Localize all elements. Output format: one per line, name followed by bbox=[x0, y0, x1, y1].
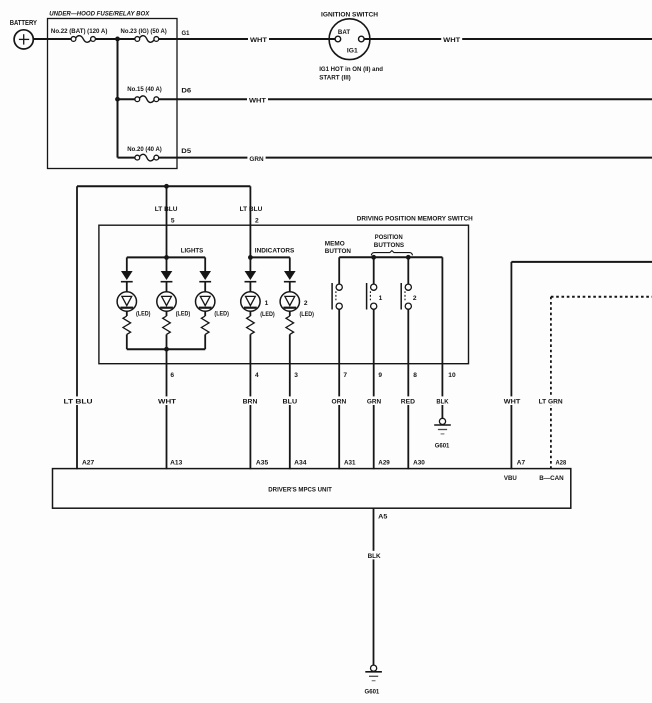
svg-text:LT BLU: LT BLU bbox=[240, 206, 263, 213]
svg-text:BRN: BRN bbox=[243, 399, 258, 406]
svg-text:3: 3 bbox=[294, 372, 298, 379]
svg-text:RED: RED bbox=[401, 399, 415, 406]
svg-text:9: 9 bbox=[378, 372, 382, 379]
svg-text:6: 6 bbox=[170, 372, 174, 379]
svg-text:5: 5 bbox=[171, 218, 175, 225]
svg-text:DRIVER'S MPCS UNIT: DRIVER'S MPCS UNIT bbox=[268, 486, 332, 493]
svg-text:7: 7 bbox=[343, 372, 347, 379]
svg-text:D6: D6 bbox=[181, 87, 191, 94]
svg-text:WHT: WHT bbox=[158, 399, 176, 406]
svg-text:No.22 (BAT) (120 A): No.22 (BAT) (120 A) bbox=[51, 28, 108, 35]
svg-text:A27: A27 bbox=[82, 459, 95, 466]
svg-text:A29: A29 bbox=[378, 459, 390, 466]
svg-text:IG1 HOT in ON (II) and: IG1 HOT in ON (II) and bbox=[319, 66, 383, 73]
svg-text:8: 8 bbox=[413, 372, 417, 379]
svg-text:A35: A35 bbox=[256, 459, 269, 466]
svg-text:(LED): (LED) bbox=[300, 312, 315, 318]
svg-text:BUTTON: BUTTON bbox=[325, 248, 351, 255]
svg-text:4: 4 bbox=[255, 372, 259, 379]
svg-text:A7: A7 bbox=[517, 459, 526, 466]
svg-text:G1: G1 bbox=[182, 30, 190, 37]
svg-text:A28: A28 bbox=[556, 459, 567, 466]
svg-text:A31: A31 bbox=[344, 459, 356, 466]
svg-text:WHT: WHT bbox=[249, 97, 266, 104]
svg-text:BAT: BAT bbox=[338, 29, 350, 36]
svg-text:G601: G601 bbox=[435, 442, 450, 449]
svg-text:No.15 (40 A): No.15 (40 A) bbox=[127, 86, 162, 93]
svg-text:BLK: BLK bbox=[436, 399, 448, 406]
svg-text:(LED): (LED) bbox=[136, 312, 151, 318]
svg-text:1: 1 bbox=[265, 300, 269, 307]
svg-text:GRN: GRN bbox=[367, 399, 382, 406]
svg-text:(LED): (LED) bbox=[260, 312, 275, 318]
svg-text:BATTERY: BATTERY bbox=[10, 18, 37, 27]
svg-text:10: 10 bbox=[448, 372, 456, 379]
svg-text:G601: G601 bbox=[365, 688, 380, 695]
svg-text:LIGHTS: LIGHTS bbox=[181, 247, 204, 254]
svg-text:1: 1 bbox=[379, 295, 383, 302]
svg-text:WHT: WHT bbox=[250, 37, 267, 44]
svg-text:BLU: BLU bbox=[283, 399, 298, 406]
svg-text:D5: D5 bbox=[181, 148, 191, 155]
svg-text:WHT: WHT bbox=[443, 37, 460, 44]
svg-text:POSITION: POSITION bbox=[375, 234, 403, 241]
svg-text:A34: A34 bbox=[294, 459, 307, 466]
svg-text:LT BLU: LT BLU bbox=[64, 399, 93, 406]
svg-text:No.23 (IG) (50 A): No.23 (IG) (50 A) bbox=[121, 28, 167, 35]
svg-text:(LED): (LED) bbox=[176, 312, 191, 318]
svg-text:WHT: WHT bbox=[504, 399, 521, 406]
svg-text:2: 2 bbox=[413, 295, 417, 302]
svg-text:A13: A13 bbox=[170, 459, 183, 466]
svg-text:INDICATORS: INDICATORS bbox=[255, 247, 295, 254]
svg-text:BUTTONS: BUTTONS bbox=[374, 242, 405, 249]
svg-text:IG1: IG1 bbox=[347, 47, 358, 54]
svg-text:VBU: VBU bbox=[504, 475, 517, 482]
svg-text:GRN: GRN bbox=[249, 156, 263, 163]
svg-text:DRIVING POSITION MEMORY SWITCH: DRIVING POSITION MEMORY SWITCH bbox=[357, 215, 473, 222]
svg-text:MEMO: MEMO bbox=[325, 241, 345, 248]
svg-text:2: 2 bbox=[255, 218, 259, 225]
svg-text:2: 2 bbox=[304, 300, 308, 307]
svg-text:START (III): START (III) bbox=[319, 75, 351, 82]
svg-text:LT GRN: LT GRN bbox=[539, 399, 563, 406]
svg-text:No.20 (40 A): No.20 (40 A) bbox=[127, 146, 162, 153]
svg-text:IGNITION SWITCH: IGNITION SWITCH bbox=[321, 12, 378, 19]
svg-text:ORN: ORN bbox=[332, 399, 347, 406]
svg-text:A5: A5 bbox=[378, 513, 388, 520]
svg-text:LT BLU: LT BLU bbox=[155, 206, 178, 213]
svg-text:UNDER—HOOD FUSE/RELAY BOX: UNDER—HOOD FUSE/RELAY BOX bbox=[49, 11, 150, 18]
svg-text:BLK: BLK bbox=[368, 553, 381, 560]
svg-text:B—CAN: B—CAN bbox=[539, 475, 564, 482]
svg-text:(LED): (LED) bbox=[214, 312, 229, 318]
svg-text:A30: A30 bbox=[413, 459, 425, 466]
